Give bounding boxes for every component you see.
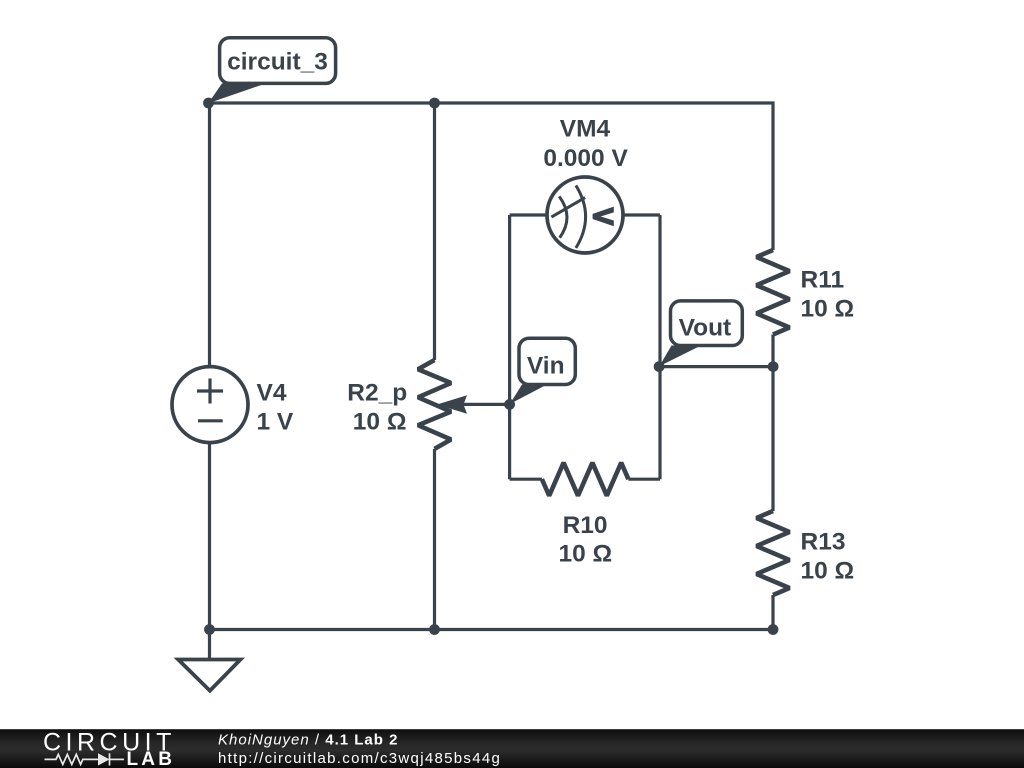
- node top-left junction: [203, 98, 214, 109]
- node Vout left junction: [654, 361, 665, 372]
- svg-text:Vin: Vin: [527, 352, 565, 379]
- voltage source V4: [172, 367, 248, 443]
- wire voltmeter right lead: [623, 213, 661, 216]
- svg-text:V4: V4: [257, 379, 287, 406]
- wire left rail upper: [208, 103, 211, 367]
- svg-text:0.000 V: 0.000 V: [543, 145, 628, 172]
- label R2_p value: [347, 380, 407, 436]
- svg-text:KhoiNguyen / 4.1 Lab 2: KhoiNguyen / 4.1 Lab 2: [218, 732, 398, 749]
- ground: [178, 630, 240, 691]
- svg-text:10 Ω: 10 Ω: [801, 296, 855, 323]
- node Vout right junction: [768, 361, 779, 372]
- footer attribution text: [218, 732, 501, 768]
- label R13 value: [801, 529, 855, 585]
- wire voltmeter loop left vertical: [508, 215, 511, 479]
- svg-text:http://circuitlab.com/c3wqj485: http://circuitlab.com/c3wqj485bs44g: [218, 750, 501, 767]
- node label circuit_3 callout: [208, 38, 335, 104]
- svg-text:circuit_3: circuit_3: [227, 49, 328, 76]
- wire R10 right lead: [628, 478, 660, 481]
- node bottom-right junction: [768, 624, 779, 635]
- node bottom-left junction: [204, 624, 215, 635]
- wire right rail between R11 and R13: [771, 335, 774, 512]
- label V4 value: [257, 379, 294, 435]
- label R11 value: [801, 267, 855, 323]
- wire voltmeter loop right vertical: [658, 215, 661, 479]
- potentiometer R2_p: [418, 360, 451, 449]
- svg-text:10 Ω: 10 Ω: [353, 409, 407, 436]
- label VM4 reading: [543, 116, 628, 172]
- wire middle rail upper: [433, 103, 436, 360]
- node Vin junction: [504, 399, 515, 410]
- node label Vin callout: [510, 338, 576, 404]
- wire middle rail lower: [433, 449, 436, 630]
- wire top rail: [209, 103, 774, 250]
- wire potentiometer wiper lead: [462, 403, 510, 406]
- svg-text:10 Ω: 10 Ω: [801, 557, 855, 584]
- node junction dots: [203, 98, 778, 635]
- node label Vout callout: [659, 301, 742, 366]
- footer bar: [0, 729, 1024, 768]
- svg-text:R10: R10: [563, 512, 608, 539]
- svg-text:R2_p: R2_p: [347, 380, 407, 407]
- wire bottom rail: [210, 628, 774, 631]
- svg-text:VM4: VM4: [560, 116, 611, 143]
- potentiometer R2_p wiper arrow: [437, 395, 467, 414]
- wire Vout horizontal: [659, 365, 773, 368]
- wire R10 left lead: [510, 478, 542, 481]
- svg-text:R11: R11: [801, 267, 845, 294]
- resistor R10: [542, 463, 629, 496]
- wire right rail below R13: [771, 595, 774, 630]
- resistor R13: [757, 511, 790, 595]
- svg-text:1 V: 1 V: [257, 409, 294, 436]
- label R10 value: [558, 512, 612, 568]
- footer CircuitLab logo: [43, 729, 176, 768]
- resistor R11: [757, 250, 790, 335]
- svg-text:LAB: LAB: [127, 749, 176, 768]
- wire left rail lower: [208, 443, 211, 630]
- node top-middle junction: [429, 98, 440, 109]
- wire voltmeter left lead: [510, 213, 548, 216]
- svg-text:R13: R13: [801, 529, 846, 556]
- node bottom-middle junction: [429, 624, 440, 635]
- voltmeter VM4 less-than mark: [593, 207, 614, 227]
- svg-text:Vout: Vout: [679, 314, 732, 341]
- svg-text:10 Ω: 10 Ω: [558, 541, 612, 568]
- voltmeter VM4: [547, 177, 623, 253]
